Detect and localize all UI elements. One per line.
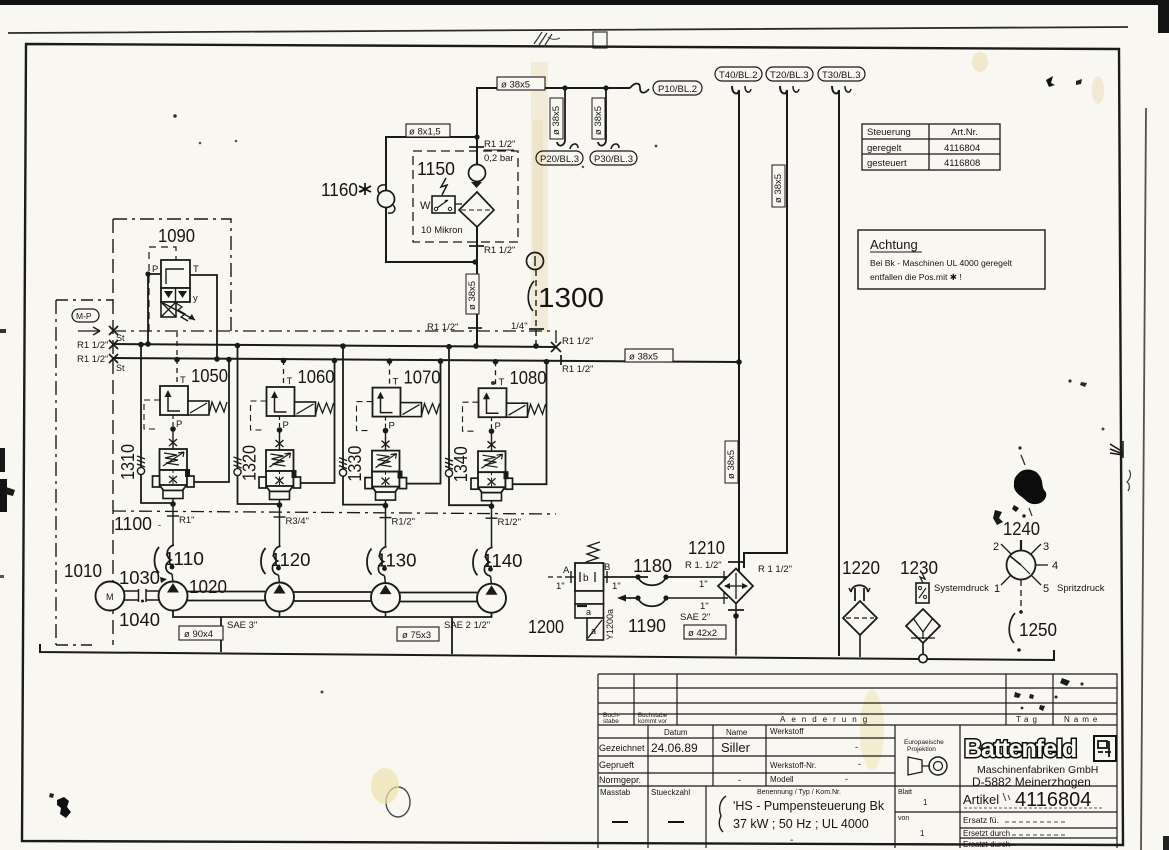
label 1080: [510, 368, 547, 388]
svg-text:P30/BL.3: P30/BL.3: [594, 154, 633, 165]
Battenfeld logo: [964, 735, 1116, 789]
svg-text:Spritzdruck: Spritzdruck: [1057, 583, 1105, 594]
wire: T30 riser to tank: [832, 86, 851, 656]
svg-text:ø 90x4: ø 90x4: [184, 629, 213, 640]
gauge point circle 1: [527, 253, 544, 270]
pilot dashed box of 1090: [149, 247, 176, 331]
svg-text:gesteuert: gesteuert: [867, 158, 907, 169]
svg-text:-: -: [845, 774, 848, 784]
Artikel row: [963, 789, 1104, 849]
seal marks on group 2 riser: [234, 457, 242, 476]
svg-text:1030: 1030: [119, 568, 160, 588]
svg-text:37 kW ; 50 Hz ; UL 4000: 37 kW ; 50 Hz ; UL 4000: [733, 817, 869, 831]
svg-text:W: W: [420, 200, 431, 212]
label R1 1/2" below filter: [484, 245, 515, 256]
label 1340 rotated: [451, 446, 471, 482]
label R1 1/2" on pilot line: [427, 322, 458, 333]
svg-text:R1 1/2": R1 1/2": [77, 354, 108, 365]
svg-text:1240: 1240: [1003, 519, 1040, 539]
label ø38x5 vertical on T40: [725, 441, 738, 483]
svg-text:R1 1/2": R1 1/2": [484, 139, 515, 150]
svg-text:-: -: [855, 742, 858, 752]
pressure switch in 1150: [420, 178, 462, 213]
svg-text:Name: Name: [1064, 715, 1101, 724]
pilot line T of valve 1060: [281, 358, 293, 387]
svg-text:SAE 2": SAE 2": [680, 612, 710, 623]
coupling 1140: [484, 518, 493, 584]
label 1160 *: [321, 180, 371, 200]
port T40/BL.2: [715, 67, 762, 81]
label 10 Mikron: [421, 225, 463, 236]
coupling 1130: [378, 518, 387, 584]
check valve 1160: [378, 185, 395, 213]
svg-text:1": 1": [700, 601, 709, 612]
tank line: [40, 644, 1054, 660]
svg-text:1: 1: [994, 583, 1000, 595]
port T30/BL.3: [818, 67, 865, 81]
wire: 1090 T to T-rail: [190, 275, 220, 362]
suction rail pumps 1-2: [188, 592, 266, 601]
pilot P under valve 1060: [276, 416, 289, 450]
svg-text:R1 1/2": R1 1/2": [427, 322, 458, 333]
filter element diamond 1150: [459, 192, 494, 227]
wire: 1200 A port: [548, 565, 575, 592]
svg-text:1": 1": [699, 579, 708, 590]
drain dash-dot line lower: [113, 511, 556, 514]
port P20/BL.3: [536, 151, 583, 165]
valve 1200 solenoid: [575, 542, 604, 640]
label ø38x5 vertical on filter drop: [466, 274, 479, 314]
svg-text:1190: 1190: [628, 616, 666, 636]
label ø38x5 on P10 header: [497, 77, 545, 91]
svg-text:1040: 1040: [119, 610, 160, 630]
label R3/4": [286, 516, 309, 527]
svg-text:T: T: [393, 377, 399, 388]
relief valve 1320: [259, 450, 301, 500]
subplate dashed of 1050: [144, 400, 160, 429]
svg-text:Battenfeld: Battenfeld: [964, 735, 1076, 763]
hose 1190: [617, 592, 728, 612]
svg-text:1230: 1230: [900, 558, 938, 578]
label 1020: [189, 577, 227, 597]
label R1 1/2" tick on T-rail: [561, 355, 593, 375]
valve 1070 2/2 solenoid: [373, 388, 440, 417]
node end of P-rail: [551, 336, 593, 352]
svg-text:ø 75x3: ø 75x3: [402, 630, 431, 641]
svg-text:1150: 1150: [417, 159, 455, 179]
pressure gauge 1240: [993, 540, 1058, 595]
svg-text:1160: 1160: [321, 180, 358, 200]
relief valve 1310: [153, 449, 195, 499]
svg-text:1330: 1330: [345, 446, 365, 482]
svg-text:1": 1": [612, 581, 621, 592]
svg-text:4116808: 4116808: [944, 158, 980, 169]
label 1070: [404, 368, 441, 388]
pump 4: [477, 584, 506, 613]
label 1180: [633, 556, 672, 576]
wire: 1090 P to P-rail: [145, 271, 161, 346]
svg-text:ø 38x5: ø 38x5: [501, 80, 530, 91]
svg-text:kommt vor: kommt vor: [638, 718, 667, 725]
svg-text:R 1. 1/2": R 1. 1/2": [685, 560, 722, 571]
svg-text:1070: 1070: [404, 368, 441, 388]
node T-rail inlet St: [77, 354, 125, 373]
wire: group 4 P riser: [446, 344, 491, 505]
label 1330 rotated: [345, 446, 365, 482]
svg-text:1340: 1340: [451, 446, 471, 482]
wire: 1210 outlet to tank: [680, 604, 739, 656]
title block projection column: [898, 739, 947, 838]
label 1150: [417, 159, 455, 179]
svg-text:P: P: [176, 419, 182, 430]
hose break to P10: [630, 84, 649, 93]
breather 1220: [843, 585, 877, 657]
svg-text:Blatt: Blatt: [898, 789, 912, 796]
svg-text:1060: 1060: [298, 367, 335, 387]
label ø38x5 vertical on P20: [550, 98, 563, 139]
pilot dash-dot line St: [113, 328, 556, 345]
svg-text:Europaeische: Europaeische: [904, 739, 944, 746]
svg-text:Name: Name: [726, 728, 748, 737]
svg-text:M: M: [106, 592, 114, 602]
wire: 1200 B port to hose 1180: [604, 562, 649, 592]
svg-text:P10/BL.2: P10/BL.2: [658, 84, 697, 95]
Steuerung table: [862, 124, 1000, 170]
svg-text:R1 1/2": R1 1/2": [562, 336, 593, 347]
svg-text:b: b: [583, 573, 589, 584]
svg-text:Benennung / Typ / Kom.Nr.: Benennung / Typ / Kom.Nr.: [757, 789, 841, 796]
wire: filter outlet down: [469, 227, 484, 349]
svg-text:1220: 1220: [842, 558, 880, 578]
svg-text:Gezeichnet: Gezeichnet: [599, 743, 645, 753]
wire: P-rail: [113, 344, 556, 347]
label ø8x1,5: [406, 124, 450, 138]
label 1110: [155, 547, 205, 573]
svg-text:Masstab: Masstab: [600, 788, 631, 797]
svg-text:Art.Nr.: Art.Nr.: [951, 127, 978, 138]
machine boundary dash-dot outer left: [56, 300, 113, 645]
label 1240: [1003, 519, 1040, 539]
svg-text:1010: 1010: [64, 561, 102, 581]
pump 3: [371, 583, 400, 612]
label 1060: [298, 367, 335, 387]
svg-text:Modell: Modell: [770, 775, 794, 784]
svg-text:Geprueft: Geprueft: [599, 760, 635, 770]
wire: group 3 T riser: [407, 358, 444, 483]
title block header texts: [603, 678, 1101, 725]
label 1140: [473, 549, 523, 575]
wire: P20 drop: [557, 85, 578, 149]
label ø38x5 vertical on P30: [592, 98, 605, 139]
svg-text:P: P: [389, 421, 395, 432]
svg-text:R 1 1/2": R 1 1/2": [758, 564, 792, 575]
node St upper: [109, 326, 125, 343]
svg-text:Werkstoff: Werkstoff: [770, 727, 804, 736]
svg-text:R1": R1": [179, 515, 195, 526]
label R1/2": [498, 517, 521, 528]
svg-text:ø 38x5: ø 38x5: [593, 106, 604, 135]
wire: filter inlet from top: [469, 137, 484, 165]
svg-text:4: 4: [1052, 560, 1058, 572]
svg-text:Datum: Datum: [664, 728, 688, 737]
seal marks on group 1 riser: [137, 456, 145, 475]
svg-text:Ersatz fü.: Ersatz fü.: [963, 815, 999, 825]
svg-text:24.06.89: 24.06.89: [651, 741, 698, 755]
svg-text:R1 1/2": R1 1/2": [562, 364, 593, 375]
label 1120: [261, 548, 311, 574]
bypass check valve in 1150: [469, 165, 486, 189]
svg-text:Ersatzt durch: Ersatzt durch: [963, 840, 1010, 849]
svg-text:P: P: [283, 420, 289, 431]
port P30/BL.3: [590, 151, 637, 165]
svg-text:R1 1/2": R1 1/2": [484, 245, 515, 256]
wire: group 2 P riser: [235, 343, 280, 504]
svg-text:entfallen die Pos.mit ✱ !: entfallen die Pos.mit ✱ !: [870, 272, 962, 282]
label 1310 rotated: [118, 444, 138, 480]
svg-text:1120: 1120: [271, 550, 311, 570]
wire: relief 1310 outlet: [167, 499, 179, 517]
tank feed drop SAE 2 1/2": [444, 618, 490, 655]
svg-text:Tag: Tag: [1016, 715, 1041, 724]
label 1100: [114, 514, 161, 534]
tank feed drop SAE 3": [221, 617, 257, 652]
label 1030: [119, 568, 167, 588]
label R1/2": [392, 517, 415, 528]
motor M 1010: [96, 582, 125, 611]
svg-text:a: a: [586, 607, 591, 617]
svg-text:T: T: [499, 377, 505, 388]
svg-text:'HS - Pumpensteuerung Bk: 'HS - Pumpensteuerung Bk: [733, 799, 885, 813]
svg-text:1": 1": [556, 581, 565, 592]
subplate dashed of 1060: [251, 401, 267, 430]
label R1 1/2" 0,2 bar: [484, 139, 515, 164]
title block left rows: [599, 727, 895, 785]
svg-text:R3/4": R3/4": [286, 516, 309, 527]
label ø38x5 on T-rail: [625, 349, 673, 363]
svg-text:1210: 1210: [688, 538, 725, 558]
label 1190: [628, 616, 666, 636]
seal marks on group 3 riser: [339, 458, 347, 477]
svg-text:T20/BL.3: T20/BL.3: [770, 70, 809, 81]
label ø75x3: [397, 627, 439, 641]
svg-text:1090: 1090: [158, 226, 195, 246]
svg-text:A: A: [563, 565, 570, 576]
svg-text:2: 2: [993, 541, 999, 553]
svg-text:-: -: [738, 775, 741, 785]
valve 1080 2/2 solenoid: [479, 388, 546, 417]
svg-text:T: T: [287, 376, 293, 387]
seal marks on group 4 riser: [445, 458, 453, 477]
svg-text:1110: 1110: [164, 549, 204, 569]
label 1300: [528, 281, 604, 313]
pump 2: [265, 583, 294, 612]
svg-text:1180: 1180: [633, 556, 672, 576]
svg-text:stabe: stabe: [603, 718, 619, 725]
coupling 1120: [272, 517, 281, 583]
svg-text:Systemdruck: Systemdruck: [934, 583, 989, 594]
svg-text:B: B: [604, 562, 610, 573]
wire: group 2 T riser: [301, 358, 338, 483]
label Systemdruck: [934, 583, 989, 594]
shaft coupling 1030/1040: [125, 589, 159, 603]
svg-text:ø 38x5: ø 38x5: [467, 281, 478, 310]
svg-text:von: von: [898, 815, 909, 822]
svg-text:D-5882 Meinerzhogen: D-5882 Meinerzhogen: [972, 775, 1091, 789]
wire: gauge dashed stem: [1020, 580, 1022, 612]
filler unit 1230: [906, 573, 940, 663]
svg-text:1: 1: [920, 829, 925, 838]
label 1220: [842, 558, 880, 578]
label 1210: [688, 538, 725, 558]
svg-text:1200: 1200: [528, 617, 564, 637]
label Spritzdruck: [1057, 583, 1105, 594]
svg-text:-: -: [158, 520, 161, 531]
pilot P under valve 1050: [169, 415, 182, 449]
wire: group 3 P riser: [340, 343, 385, 504]
svg-text:ø 38x5: ø 38x5: [773, 174, 784, 203]
svg-text:Artikel: Artikel: [963, 792, 999, 807]
svg-text:P20/BL.3: P20/BL.3: [540, 154, 579, 165]
svg-text:3: 3: [1043, 541, 1049, 553]
wire: relief 1320 outlet: [274, 500, 286, 518]
label R1": [179, 515, 195, 526]
svg-text:P: P: [495, 421, 501, 432]
bypass loop wire around filter: [386, 134, 480, 264]
wire: group 4 T riser: [513, 359, 550, 484]
label 1090: [158, 226, 195, 246]
check valve 1210: [718, 562, 792, 610]
label 1200: [528, 617, 564, 637]
svg-text:1: 1: [923, 798, 928, 807]
svg-text:1020: 1020: [189, 577, 227, 597]
svg-text:4116804: 4116804: [944, 143, 980, 154]
label 1230: [900, 558, 938, 578]
valve 1090 proportional relief: [152, 260, 199, 321]
svg-text:1140: 1140: [483, 551, 523, 571]
svg-text:Achtung: Achtung: [870, 237, 918, 252]
port T20/BL.3: [766, 67, 813, 81]
pilot line T of valve 1080: [493, 359, 505, 388]
svg-text:ø 38x5: ø 38x5: [629, 352, 658, 363]
svg-text:10 Mikron: 10 Mikron: [421, 225, 463, 236]
label 1130: [367, 549, 417, 575]
filter unit 1150 dashed enclosure: [413, 151, 518, 242]
suction rail pumps 3-4: [400, 593, 477, 602]
svg-text:ø 42x2: ø 42x2: [688, 628, 717, 639]
svg-text:M-P: M-P: [76, 311, 92, 321]
svg-text:SAE 2 1/2": SAE 2 1/2": [444, 620, 490, 631]
enclosure dash-dot around 1090: [113, 219, 231, 331]
hose 1180: [635, 571, 728, 590]
wire: P30 drop: [598, 85, 619, 149]
svg-text:geregelt: geregelt: [867, 143, 902, 154]
wire: group 1 T riser: [194, 357, 232, 482]
wire: T20 riser: [744, 86, 799, 568]
svg-text:5: 5: [1043, 583, 1049, 595]
svg-text:ø 38x5: ø 38x5: [551, 106, 562, 135]
Achtung note box: [858, 230, 1045, 289]
svg-text:T30/BL.3: T30/BL.3: [822, 70, 861, 81]
svg-text:R1 1/2": R1 1/2": [77, 340, 108, 351]
svg-text:Ersetzt durch: Ersetzt durch: [963, 829, 1010, 838]
node P-rail inlet: [77, 340, 118, 351]
label R 1 1/2" left: [685, 560, 722, 571]
svg-text:Normgepr.: Normgepr.: [599, 775, 641, 785]
label 1250: [1009, 610, 1057, 652]
svg-text:T: T: [193, 264, 199, 275]
machine boundary dashed inner left: [112, 300, 114, 645]
subplate dashed of 1080: [463, 402, 479, 431]
svg-text:Stueckzahl: Stueckzahl: [651, 788, 690, 797]
title block frame: [598, 674, 1117, 848]
label 1320 rotated: [240, 445, 260, 481]
svg-text:0,2 bar: 0,2 bar: [484, 153, 514, 164]
wire: gauge connection dashed 1/4": [529, 270, 544, 349]
svg-text:Bei Bk - Maschinen UL 4000 ger: Bei Bk - Maschinen UL 4000 geregelt: [870, 258, 1013, 268]
svg-text:-: -: [858, 759, 861, 769]
suction drop line pumps: [173, 611, 492, 618]
svg-text:-: -: [790, 835, 793, 846]
svg-text:Siller: Siller: [721, 740, 751, 755]
pilot P under valve 1080: [488, 417, 501, 451]
relief valve 1330: [365, 451, 407, 501]
valve 1050 2/2 solenoid: [160, 386, 227, 415]
label 1050: [191, 366, 228, 386]
svg-text:T: T: [180, 375, 186, 386]
svg-text:ø 8x1,5: ø 8x1,5: [409, 127, 441, 138]
svg-text:R1/2": R1/2": [392, 517, 415, 528]
svg-text:St: St: [116, 363, 125, 373]
relief valve 1340: [471, 451, 513, 501]
label 1040: [119, 610, 160, 630]
svg-text:a: a: [591, 626, 596, 636]
pilot P under valve 1070: [382, 417, 395, 451]
label ø42x2: [684, 625, 726, 639]
svg-text:Steuerung: Steuerung: [867, 127, 911, 138]
label 1010: [64, 561, 102, 581]
svg-text:y: y: [193, 293, 198, 304]
svg-text:1080: 1080: [510, 368, 547, 388]
title block bottom-left: [600, 788, 885, 846]
svg-text:T40/BL.2: T40/BL.2: [719, 70, 758, 81]
svg-text:R1/2": R1/2": [498, 517, 521, 528]
svg-text:1130: 1130: [377, 551, 417, 571]
svg-text:1320: 1320: [240, 445, 260, 481]
label Y1200a rotated: [605, 609, 615, 640]
coupling 1110: [166, 516, 175, 582]
wire: relief 1330 outlet: [380, 500, 392, 517]
wire: relief 1340 outlet: [486, 501, 498, 519]
pilot line T of valve 1050: [174, 332, 186, 386]
label 1/4": [511, 321, 528, 332]
subplate dashed of 1070: [357, 402, 373, 431]
svg-text:Werkstoff-Nr.: Werkstoff-Nr.: [770, 761, 816, 770]
label ø38x5 vertical on T20: [772, 165, 785, 207]
wire: T40 riser: [732, 86, 751, 572]
pilot line T of valve 1070: [387, 358, 399, 387]
wire: top pressure header P10: [477, 88, 630, 137]
wire: group 1 P riser: [138, 342, 173, 503]
svg-text:1310: 1310: [118, 444, 138, 480]
label ø90x4: [179, 626, 223, 640]
svg-text:1050: 1050: [191, 366, 228, 386]
svg-text:Projektion: Projektion: [907, 746, 936, 753]
suction rail pumps 2-3: [294, 592, 371, 601]
pump 1: [159, 582, 188, 611]
svg-text:Aenderung: Aenderung: [780, 715, 873, 724]
svg-text:1100: 1100: [114, 514, 152, 534]
svg-text:1250: 1250: [1019, 620, 1057, 640]
